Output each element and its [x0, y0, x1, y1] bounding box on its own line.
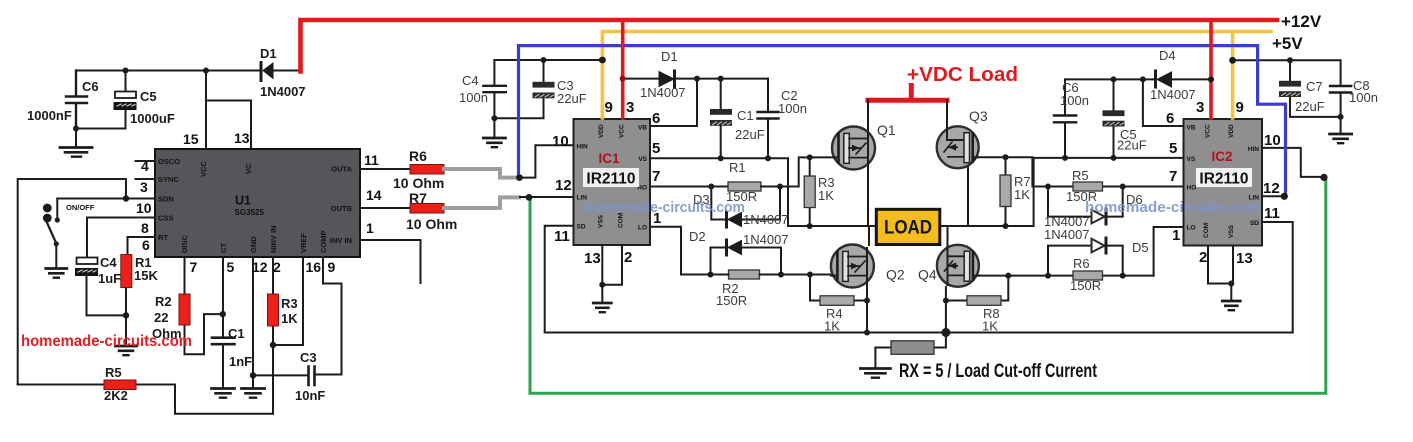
svg-text:D1: D1 — [661, 49, 678, 64]
red +VDC bus — [868, 86, 947, 101]
svg-text:CSS: CSS — [158, 214, 173, 223]
wire INV IN pin 1 — [360, 240, 421, 283]
svg-text:IR2110: IR2110 — [586, 171, 635, 188]
svg-text:R2: R2 — [155, 294, 172, 309]
svg-text:RX = 5 / Load Cut-off Current: RX = 5 / Load Cut-off Current — [899, 361, 1098, 382]
resistor R3 1K — [268, 257, 299, 414]
pin stub RT 6 — [128, 236, 156, 238]
svg-text:IR2110: IR2110 — [1199, 171, 1248, 188]
svg-text:RT: RT — [158, 233, 168, 242]
svg-text:1K: 1K — [824, 319, 840, 334]
diode D3 (across R1) — [693, 187, 789, 228]
resistor R5 2K2 — [18, 365, 273, 414]
svg-text:5: 5 — [1169, 140, 1177, 157]
diode D4 bootstrap IC2 — [1065, 48, 1211, 102]
svg-text:100n: 100n — [1060, 93, 1089, 108]
svg-text:+12V: +12V — [1281, 12, 1322, 31]
svg-text:2: 2 — [273, 259, 281, 275]
svg-text:16: 16 — [306, 259, 322, 275]
svg-text:10 Ohm: 10 Ohm — [393, 175, 444, 191]
svg-text:1000nF: 1000nF — [27, 108, 72, 123]
svg-text:10: 10 — [136, 200, 152, 216]
ground below C6 — [60, 148, 92, 157]
resistor R2 150R (IC1 LO) — [711, 270, 832, 308]
svg-text:C1: C1 — [737, 108, 754, 123]
svg-text:CT: CT — [219, 243, 228, 253]
svg-text:SYNC: SYNC — [158, 175, 179, 184]
svg-text:6: 6 — [142, 237, 150, 253]
svg-text:SD: SD — [1250, 220, 1259, 227]
pin stub SDN 10 — [57, 198, 155, 200]
capacitor C3 10nF — [295, 350, 325, 403]
wire COM/VSS ground IC2 — [1208, 246, 1233, 301]
switch ON/OFF — [43, 199, 95, 269]
svg-text:HIN: HIN — [577, 144, 589, 151]
node R3/VREF — [270, 342, 276, 348]
svg-text:VREF: VREF — [299, 233, 308, 253]
svg-text:R3: R3 — [281, 296, 298, 311]
ground below R1 — [116, 346, 137, 355]
capacitor C6 100n (IC2) — [1054, 79, 1089, 157]
svg-text:C3: C3 — [300, 350, 317, 365]
svg-text:100n: 100n — [778, 101, 807, 116]
svg-text:D5: D5 — [1132, 240, 1149, 255]
svg-text:INV IN: INV IN — [330, 236, 352, 245]
svg-text:11: 11 — [554, 228, 570, 245]
pin stub CSS 8 — [87, 217, 155, 219]
diode D2 (across R2 150R) — [689, 229, 789, 275]
svg-text:VCC: VCC — [1205, 124, 1212, 138]
wire LO pin1 IC2 — [1154, 227, 1184, 276]
wire VCC riser to pin 15 — [205, 71, 207, 150]
wire LO pin1 IC1 — [650, 227, 711, 275]
svg-text:OUTB: OUTB — [331, 204, 353, 213]
resistor R6 10 Ohm — [360, 148, 444, 191]
svg-text:NINV IN: NINV IN — [269, 225, 278, 253]
capacitor C5 — [78, 71, 175, 129]
svg-text:22uF: 22uF — [1117, 138, 1147, 153]
wire VB pin6 IC1 — [650, 79, 697, 126]
svg-text:7: 7 — [1169, 168, 1177, 185]
capacitor C5 22uF (IC2) — [1103, 79, 1147, 157]
yellow +5V rail — [602, 32, 1271, 119]
svg-text:SG3525: SG3525 — [235, 207, 265, 217]
svg-text:100n: 100n — [1349, 90, 1378, 105]
capacitor C1 22uF (IC1) — [710, 79, 765, 159]
diode D1 (1N4007 supply) — [260, 46, 306, 99]
svg-text:VSS: VSS — [1228, 224, 1235, 238]
svg-text:15K: 15K — [134, 268, 158, 283]
wire Q3 drain link — [946, 100, 948, 127]
svg-text:VSS: VSS — [598, 214, 605, 228]
svg-text:VS: VS — [638, 156, 647, 163]
svg-text:7: 7 — [190, 259, 198, 275]
svg-text:3: 3 — [1196, 99, 1204, 116]
ground below C1 — [212, 389, 235, 398]
svg-text:22: 22 — [154, 310, 168, 325]
svg-text:R6: R6 — [1073, 256, 1090, 271]
svg-text:1N4007: 1N4007 — [1044, 227, 1090, 242]
ground below RX — [860, 369, 890, 378]
svg-text:homemade-circuits.com: homemade-circuits.com — [21, 333, 192, 350]
svg-text:22uF: 22uF — [557, 91, 587, 106]
wire VS pin5 IC1 to bridge — [650, 158, 788, 226]
wire left feedback border — [18, 179, 126, 385]
svg-text:Q2: Q2 — [886, 267, 905, 283]
transistor Q1 — [832, 100, 896, 226]
svg-text:13: 13 — [584, 250, 601, 267]
wire top rail C6/C5 to D1 — [76, 70, 261, 72]
capacitor C3 22uF (IC1) — [497, 60, 587, 118]
wire SD pin11 IC1 to bottom rail — [545, 226, 574, 333]
svg-text:VCC: VCC — [199, 161, 208, 177]
svg-text:12: 12 — [1263, 180, 1280, 197]
resistor R7 1K (gate-source Q3) — [1000, 157, 1031, 226]
svg-text:1: 1 — [366, 220, 374, 236]
bottom source rail — [545, 332, 1293, 334]
resistor R1 150R (IC1 HO) — [650, 157, 834, 204]
svg-text:10 Ohm: 10 Ohm — [406, 216, 457, 232]
red +12V rail — [301, 20, 1278, 72]
diode D6 (across R5) — [1044, 187, 1143, 230]
svg-text:VCC: VCC — [619, 124, 626, 138]
svg-text:R6: R6 — [409, 148, 427, 164]
svg-text:LO: LO — [1187, 225, 1196, 232]
svg-text:R5: R5 — [105, 365, 122, 380]
IC1 chip body — [574, 119, 651, 245]
svg-text:1K: 1K — [1014, 187, 1030, 202]
ground below IC2 — [1222, 301, 1240, 310]
pin stub OSCO 4 — [136, 160, 156, 162]
pin stub SYNC 3 — [136, 178, 156, 180]
svg-text:100n: 100n — [459, 90, 488, 105]
node CT/R2 — [220, 311, 226, 317]
svg-text:9: 9 — [605, 99, 613, 116]
wire SD IC2 to rail — [1262, 222, 1293, 333]
wire to ground — [125, 315, 127, 345]
svg-text:IC2: IC2 — [1211, 149, 1232, 164]
svg-text:Q3: Q3 — [969, 108, 988, 124]
svg-text:6: 6 — [652, 110, 660, 127]
LOAD box — [876, 209, 940, 244]
svg-text:VB: VB — [638, 125, 647, 132]
red riser IC1 VCC — [621, 20, 625, 118]
svg-text:1N4007: 1N4007 — [1150, 87, 1196, 102]
svg-text:11: 11 — [1264, 205, 1280, 222]
transistor Q2 — [831, 226, 905, 333]
svg-text:1N4007: 1N4007 — [743, 212, 789, 227]
U1 SG3525 chip body — [155, 149, 360, 257]
svg-text:LO: LO — [638, 225, 647, 232]
capacitor C4 100n (IC1) — [459, 60, 602, 118]
svg-text:VB: VB — [1187, 125, 1196, 132]
wire midpoint left (load left) — [788, 225, 876, 227]
diode D5 (across R6) — [1044, 227, 1149, 276]
svg-text:1K: 1K — [281, 311, 298, 326]
svg-text:C4: C4 — [100, 255, 117, 270]
wire Q3 gate jog — [978, 157, 1048, 186]
svg-text:15: 15 — [183, 131, 199, 147]
capacitor C6 — [27, 71, 99, 148]
wire HIN IC2 jog — [1262, 148, 1324, 177]
resistor R3 1K (gate-source Q1) — [804, 157, 834, 226]
svg-text:VDD: VDD — [598, 124, 605, 138]
svg-text:OSCO: OSCO — [158, 157, 180, 166]
svg-text:D2: D2 — [689, 229, 706, 244]
svg-text:1N4007: 1N4007 — [743, 232, 789, 247]
svg-text:SDN: SDN — [158, 195, 174, 204]
wire VC loop pin13 — [206, 101, 251, 150]
blue wire OUTA to IC2 LIN — [519, 46, 1286, 195]
svg-text:1uF: 1uF — [98, 271, 121, 286]
wire C3 left lead — [253, 374, 308, 376]
capacitor C2 100n (IC1) — [758, 79, 807, 159]
svg-text:COM: COM — [1203, 223, 1210, 238]
wire VS pin5 IC2 — [1034, 157, 1184, 159]
svg-text:6: 6 — [1166, 110, 1174, 127]
node dot C5/C6 bottom — [73, 126, 79, 132]
wire VSS/COM ground IC1 — [602, 245, 622, 303]
svg-text:ON/OFF: ON/OFF — [66, 203, 95, 212]
svg-text:VDD: VDD — [1228, 124, 1235, 138]
svg-text:C6: C6 — [82, 79, 99, 94]
svg-text:homemade-circuits.com: homemade-circuits.com — [1085, 199, 1261, 216]
svg-text:U1: U1 — [235, 194, 251, 208]
svg-text:12: 12 — [555, 177, 572, 194]
svg-text:1000uF: 1000uF — [130, 111, 175, 126]
node dot VCC riser — [203, 68, 209, 74]
svg-text:OUTA: OUTA — [331, 165, 352, 174]
svg-text:13: 13 — [234, 130, 250, 146]
svg-text:9: 9 — [328, 259, 336, 275]
capacitor C4 1uF — [76, 218, 124, 316]
resistor R8 1K (gate-source Q4) — [946, 276, 1008, 334]
svg-text:D4: D4 — [1159, 48, 1176, 63]
svg-text:R1: R1 — [729, 160, 746, 175]
svg-text:4: 4 — [141, 158, 149, 174]
svg-text:C4: C4 — [462, 73, 479, 88]
svg-text:10: 10 — [552, 133, 569, 150]
resistor R7 10 Ohm — [360, 190, 457, 232]
diode D1 bootstrap IC1 — [623, 49, 697, 100]
svg-text:HO: HO — [1187, 185, 1197, 192]
svg-text:1K: 1K — [982, 319, 998, 334]
node C4/R1 — [123, 312, 129, 318]
svg-text:10: 10 — [1264, 132, 1281, 149]
svg-text:C1: C1 — [228, 326, 245, 341]
svg-text:VS: VS — [1187, 156, 1196, 163]
svg-text:2: 2 — [1199, 249, 1207, 266]
svg-text:IC1: IC1 — [598, 151, 620, 166]
resistor RX sense — [875, 333, 946, 369]
wire midpoint right (load right) — [940, 158, 1034, 226]
capacitor C1 1nF — [212, 257, 252, 388]
wire COMP pin 9 — [315, 257, 342, 375]
resistor R5 150R (IC2 HO) — [1048, 168, 1184, 204]
svg-text:14: 14 — [366, 187, 382, 203]
svg-text:D1: D1 — [260, 46, 277, 61]
wire GND pin 12 — [252, 257, 254, 375]
wire VREF pin 16 — [273, 257, 303, 345]
svg-text:1K: 1K — [818, 188, 834, 203]
svg-text:R7: R7 — [409, 190, 427, 206]
svg-text:11: 11 — [364, 152, 379, 168]
svg-text:+5V: +5V — [1272, 34, 1303, 53]
svg-text:R5: R5 — [1072, 168, 1089, 183]
wire LIN IC1 — [520, 196, 574, 198]
svg-text:+VDC Load: +VDC Load — [907, 64, 1018, 86]
svg-text:HIN: HIN — [1248, 146, 1260, 153]
gray wire OUTB jog — [444, 197, 519, 208]
svg-text:C7: C7 — [1306, 79, 1323, 94]
svg-text:3: 3 — [626, 99, 634, 116]
svg-text:5: 5 — [227, 259, 235, 275]
ground below IC1 — [593, 303, 611, 312]
svg-text:8: 8 — [141, 220, 149, 236]
node dot C5 top — [123, 68, 129, 74]
svg-text:1nF: 1nF — [229, 354, 252, 369]
capacitor C8 100n (IC2 supply) — [1233, 60, 1378, 133]
IC2 chip body — [1184, 119, 1263, 246]
resistor R4 1K (gate-source Q2) — [810, 275, 867, 334]
svg-text:SD: SD — [577, 224, 586, 231]
svg-text:Q1: Q1 — [877, 122, 896, 138]
resistor R1 15K — [121, 237, 159, 315]
svg-text:2K2: 2K2 — [104, 388, 128, 403]
node dots over wires — [516, 174, 523, 181]
svg-text:3: 3 — [140, 179, 148, 195]
svg-text:C5: C5 — [140, 89, 157, 104]
wire LIN IC2 — [1262, 195, 1284, 197]
resistor R6 150R (IC2 LO) — [1048, 256, 1154, 293]
ground below GND pin — [242, 389, 265, 398]
yellow riser IC2 VDD — [1231, 32, 1235, 119]
svg-text:9: 9 — [1236, 99, 1244, 116]
svg-text:7: 7 — [652, 168, 660, 185]
capacitor C7 22uF (IC2 supply) — [1279, 60, 1341, 117]
svg-text:5: 5 — [652, 140, 660, 157]
wire VB pin6 IC2 — [1143, 79, 1184, 126]
svg-text:150R: 150R — [1070, 278, 1101, 293]
green wire OUTB to IC2 HIN — [530, 179, 1326, 394]
ground below C4 (IC1) — [483, 138, 505, 147]
svg-text:150R: 150R — [716, 293, 747, 308]
transistor Q3 (mirrored) — [937, 108, 988, 226]
resistor R2 22 Ohm — [152, 257, 223, 354]
svg-text:22uF: 22uF — [1295, 99, 1325, 114]
svg-text:10nF: 10nF — [295, 388, 325, 403]
svg-text:1N4007: 1N4007 — [260, 84, 306, 99]
node dot D4 line at +12V riser — [1208, 76, 1214, 82]
svg-text:1N4007: 1N4007 — [640, 85, 686, 100]
svg-text:GND: GND — [249, 236, 258, 253]
svg-text:COMP: COMP — [319, 231, 328, 254]
svg-text:12: 12 — [252, 259, 268, 275]
svg-text:2: 2 — [624, 249, 632, 266]
svg-text:13: 13 — [1236, 250, 1253, 267]
node SDN junction — [123, 195, 129, 201]
svg-text:DISC: DISC — [180, 234, 189, 253]
node dot C4/C3 at +5V — [599, 57, 606, 64]
transistor Q4 (mirrored) — [918, 226, 979, 333]
svg-text:LOAD: LOAD — [884, 217, 932, 239]
gray wire OUTA jog — [444, 169, 517, 178]
svg-text:homemade-circuits.com: homemade-circuits.com — [584, 199, 745, 216]
wire HIN IC1 — [520, 145, 574, 177]
svg-text:22uF: 22uF — [735, 127, 765, 142]
ground below switch — [46, 269, 67, 278]
red riser IC2 VCC — [1209, 20, 1213, 118]
ground below C8 — [1330, 134, 1352, 143]
svg-text:1: 1 — [1172, 227, 1180, 244]
svg-text:Q4: Q4 — [918, 267, 937, 283]
svg-text:VC: VC — [244, 163, 253, 174]
wire Q4 gate line — [979, 275, 1048, 277]
